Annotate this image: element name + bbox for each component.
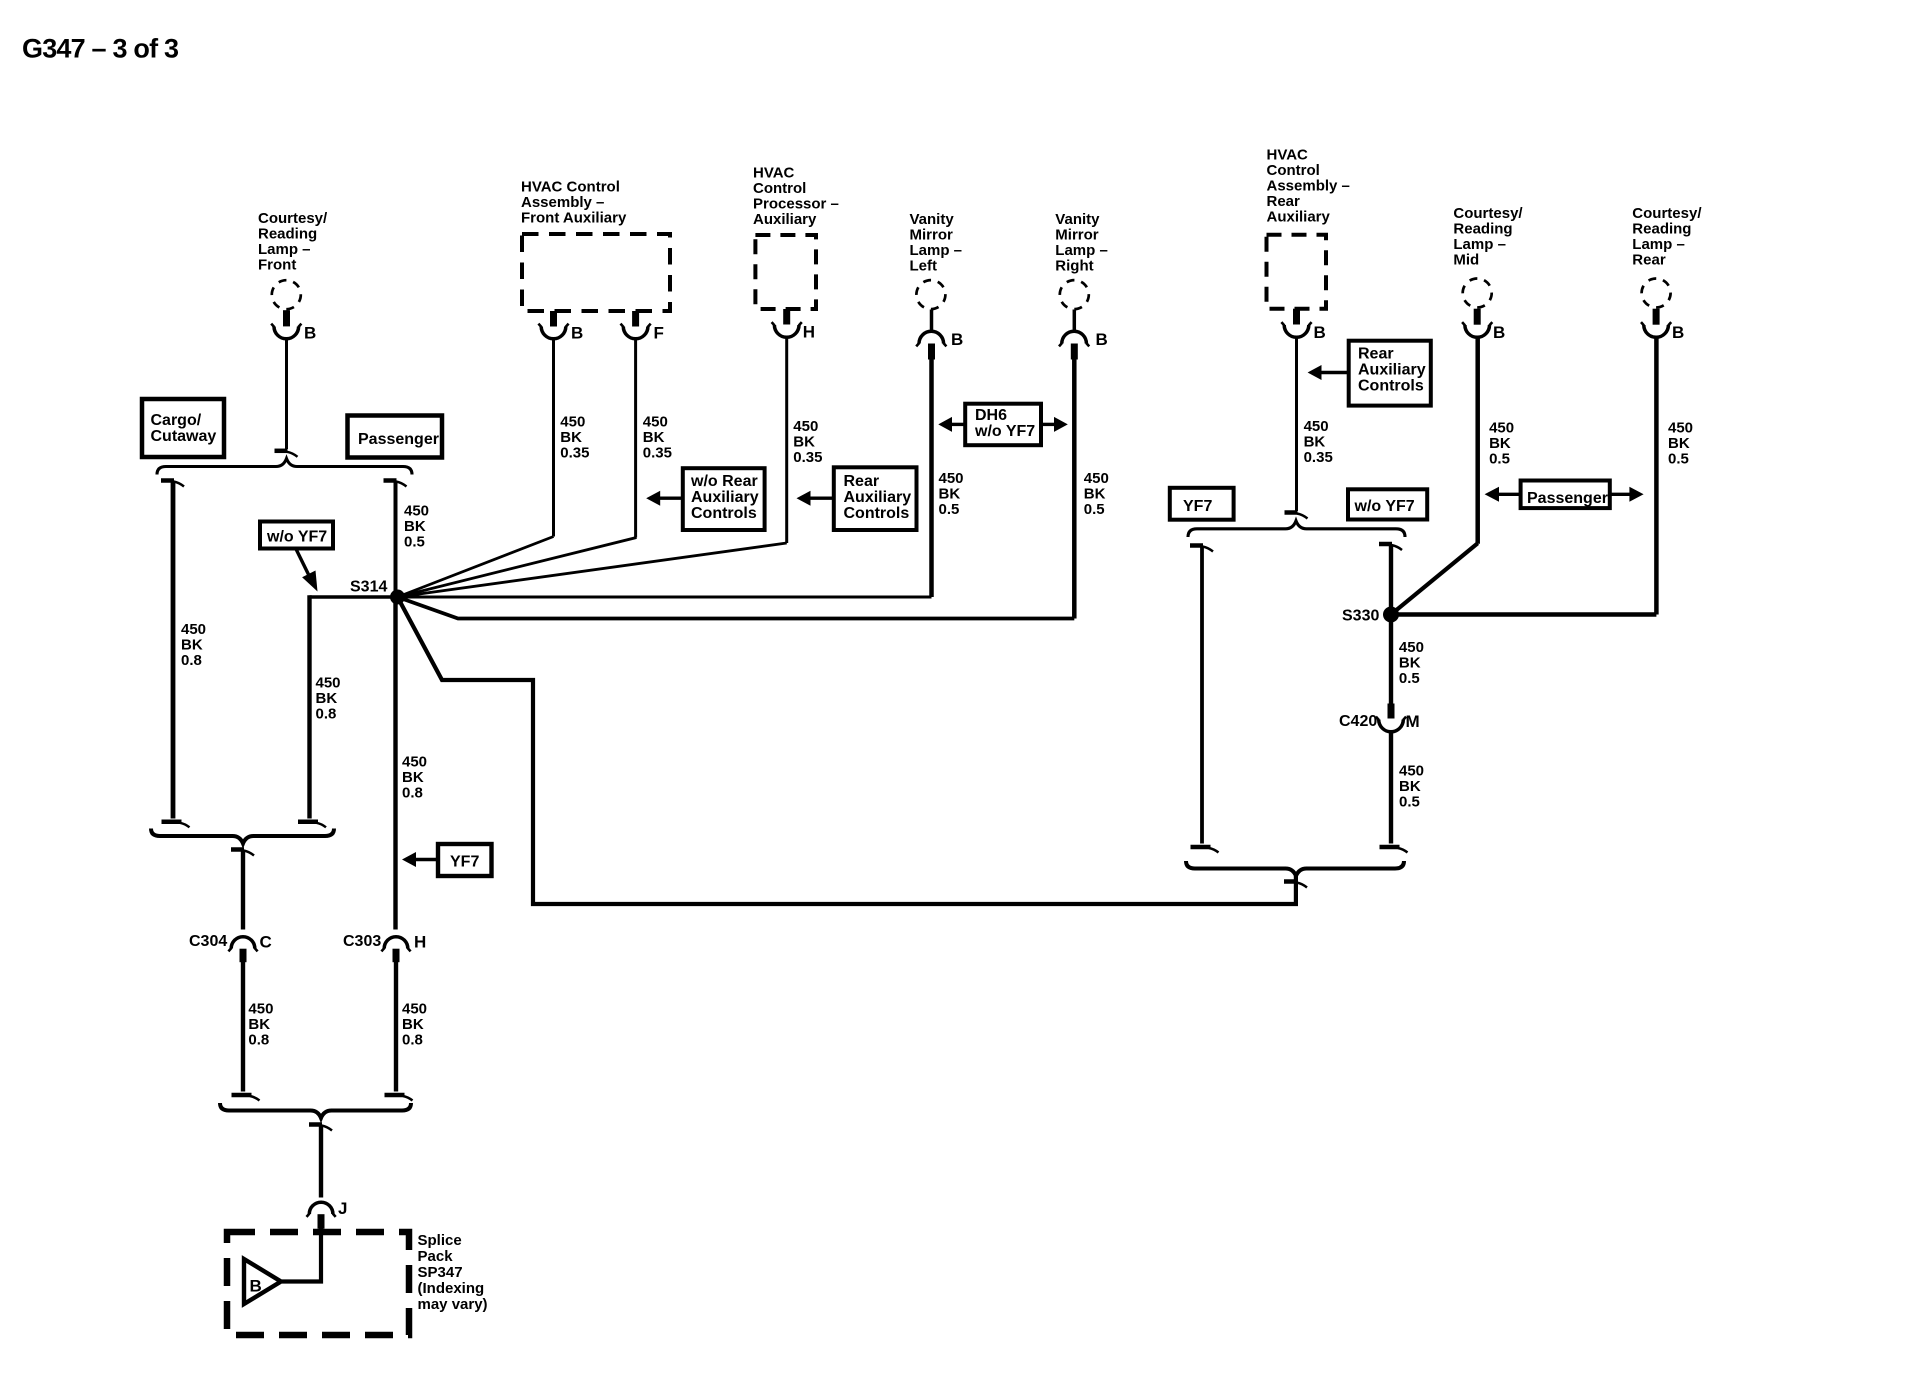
Vanity Mirror Lamp Right dashed circle [1055, 275, 1094, 314]
Courtesy/Reading Lamp Mid dashed circle [1458, 273, 1497, 312]
connector pin B of lamp front [283, 310, 290, 326]
connector cup B of lamp rear [1644, 325, 1669, 337]
wire 450 BK 0.35 from pin B down [552, 339, 555, 537]
connector J pin [318, 1214, 325, 1229]
wire 450 BK 0.8 cargo branch vertical [171, 483, 176, 819]
HVAC Control Assembly Front Auxiliary dashed box [522, 234, 670, 311]
svg-text:BK: BK [1084, 485, 1106, 502]
svg-text:Control: Control [753, 180, 806, 197]
wire 450 BK 0.8 from S314 down to C303 [393, 597, 397, 930]
Passenger box (right) [1521, 481, 1610, 509]
wire label 450 BK 0.5 (below C420) [1399, 762, 1424, 810]
svg-text:H: H [803, 323, 815, 342]
arrow from Rear Auxiliary Controls box to rear aux wire [1321, 371, 1349, 374]
svg-text:Mirror: Mirror [910, 226, 954, 243]
svg-text:Rear: Rear [844, 473, 880, 490]
connector pin B of lamp rear [1653, 309, 1660, 325]
svg-text:C420: C420 [1339, 713, 1377, 730]
wire label 450 BK 0.35 (B wire) [560, 413, 589, 461]
svg-text:B: B [1672, 323, 1684, 342]
connector cup H of HVAC processor [774, 325, 799, 337]
svg-text:450: 450 [1668, 420, 1693, 437]
Rear Auxiliary Controls box (right) [1349, 341, 1431, 406]
connector pin B of lamp mid [1474, 309, 1481, 325]
wire 450 BK 0.5 below C420 [1389, 733, 1393, 844]
svg-text:Passenger: Passenger [358, 431, 439, 448]
harness hook bottom of C304 wire [232, 1093, 252, 1098]
harness hook bottom of YF7 branch wire [1191, 845, 1211, 850]
connector cup F of HVAC front aux [623, 327, 648, 339]
w/o YF7 box (right) [1348, 489, 1427, 519]
HVAC Control Processor Auxiliary dashed box [755, 235, 816, 309]
wire YF7 branch vertical [1200, 548, 1204, 844]
wire from brace down to C304 [241, 852, 245, 930]
connector cup B of lamp front [274, 327, 299, 339]
svg-text:HVAC: HVAC [753, 164, 795, 181]
wire fan from S314 to HVAC processor H wire [398, 543, 787, 597]
wire label 450 BK 0.35 (F wire) [643, 413, 672, 461]
svg-text:0.8: 0.8 [181, 652, 202, 669]
svg-text:Right: Right [1055, 257, 1093, 274]
harness hook at end of rear aux wire [1285, 510, 1298, 515]
stub from vanity left lamp [930, 310, 934, 333]
wire label 450 BK 0.8 (below C303) [402, 1000, 427, 1048]
svg-text:0.35: 0.35 [560, 444, 589, 461]
wire 450 BK 0.35 from pin H down [785, 338, 788, 544]
svg-text:0.35: 0.35 [643, 444, 672, 461]
svg-text:0.5: 0.5 [1668, 451, 1689, 468]
svg-text:0.8: 0.8 [402, 1031, 423, 1048]
svg-text:YF7: YF7 [450, 854, 479, 871]
svg-text:HVAC: HVAC [1267, 147, 1309, 164]
HVAC Control Assembly Rear Auxiliary dashed box [1267, 235, 1327, 309]
HVAC Control Assembly Rear Auxiliary label [1267, 147, 1350, 226]
wire from S314 to vanity left wire [398, 596, 932, 599]
Vanity Mirror Lamp Left label [910, 211, 963, 275]
svg-text:Auxiliary: Auxiliary [691, 489, 759, 506]
harness hook bottom of w/o YF7 branch wire [1380, 845, 1400, 850]
arrow from w/o YF7 box toward S314 [296, 549, 309, 575]
harness hook top of cargo wire [161, 478, 174, 483]
svg-text:B: B [1493, 323, 1505, 342]
connector C420 cup [1379, 720, 1404, 732]
svg-text:Rear: Rear [1358, 346, 1394, 363]
svg-text:0.8: 0.8 [248, 1031, 269, 1048]
lamp E1 label Courtesy/Reading Lamp - Front [258, 210, 328, 274]
svg-text:YF7: YF7 [1183, 498, 1212, 515]
w/o YF7 box (left) [260, 522, 333, 549]
HVAC Control Assembly Front Auxiliary label [521, 178, 627, 226]
lamp E1 dashed circle Courtesy/Reading Lamp Front [267, 275, 306, 314]
svg-text:BK: BK [560, 429, 582, 446]
svg-text:0.35: 0.35 [1304, 449, 1333, 466]
svg-text:B: B [571, 324, 583, 343]
svg-text:B: B [1096, 330, 1108, 349]
svg-text:Mid: Mid [1453, 251, 1479, 268]
svg-text:450: 450 [402, 1000, 427, 1017]
svg-text:Controls: Controls [1358, 378, 1424, 395]
brace joining C304 and C303 wires into splice pack lead [220, 1103, 411, 1118]
svg-text:Front Auxiliary: Front Auxiliary [521, 209, 627, 226]
svg-text:Controls: Controls [691, 505, 757, 522]
wire 450 BK 0.5 lamp rear down to S330 level [1654, 338, 1659, 615]
svg-text:J: J [338, 1199, 347, 1218]
svg-text:(Indexing: (Indexing [418, 1280, 485, 1297]
svg-text:0.5: 0.5 [1399, 670, 1420, 687]
svg-text:Mirror: Mirror [1055, 226, 1099, 243]
svg-text:450: 450 [404, 503, 429, 520]
svg-text:BK: BK [248, 1016, 270, 1033]
wire 450 BK 0.35 from HVAC rear aux B down [1295, 338, 1298, 511]
wire label 450 BK 0.5 (S330 to C420) [1399, 639, 1424, 687]
wire 450 BK 0.5 vanity left down to S314 level [929, 359, 934, 597]
wire 450 BK 0.5 vanity right down [1072, 359, 1077, 619]
svg-text:Assembly –: Assembly – [521, 194, 604, 211]
connector C303 arch [384, 937, 408, 949]
svg-text:HVAC Control: HVAC Control [521, 178, 620, 195]
connector cup B of HVAC front aux [541, 327, 566, 339]
harness hook on rear harness stem [1284, 879, 1297, 884]
Courtesy/Reading Lamp Rear label [1632, 205, 1702, 269]
harness hook on C304 stem [231, 847, 244, 852]
svg-text:BK: BK [1489, 435, 1511, 452]
svg-text:Cargo/: Cargo/ [151, 412, 202, 429]
svg-text:Lamp –: Lamp – [258, 241, 311, 258]
svg-text:DH6: DH6 [975, 407, 1007, 424]
svg-text:Auxiliary: Auxiliary [1358, 362, 1426, 379]
wire fan from S314 to HVAC front aux B wire [398, 537, 554, 598]
svg-text:0.5: 0.5 [1399, 793, 1420, 810]
arrow from w/o Rear Auxiliary Controls box to F wire [660, 497, 683, 500]
svg-text:G347 – 3 of 3: G347 – 3 of 3 [22, 34, 179, 64]
svg-text:Pack: Pack [418, 1248, 454, 1265]
arrow from Rear Auxiliary Controls box to H wire [810, 497, 834, 500]
svg-text:BK: BK [939, 485, 961, 502]
svg-text:Lamp –: Lamp – [1632, 236, 1685, 253]
wire label 450 BK 0.5 (lamp mid) [1489, 420, 1514, 468]
connector arch B of vanity left [919, 331, 944, 343]
connector pin of vanity left [928, 344, 935, 360]
svg-text:H: H [414, 933, 426, 952]
svg-text:Reading: Reading [1453, 220, 1512, 237]
harness hook top of YF7 branch wire [1190, 543, 1203, 548]
svg-text:B: B [304, 324, 316, 343]
svg-text:450: 450 [939, 470, 964, 487]
arrow from DH6 box to vanity right wire [1041, 423, 1055, 426]
wire 450 BK 0.8 below C304 [241, 962, 245, 1092]
svg-text:0.8: 0.8 [316, 705, 337, 722]
brace joining YF7 and w/o YF7 branches into rear harness run [1186, 861, 1404, 876]
harness hook bottom of cargo branch wire [162, 820, 182, 825]
wire from S330 diagonal to lamp mid wire [1391, 543, 1478, 614]
svg-text:450: 450 [248, 1000, 273, 1017]
brace joining cargo and w/o YF7 branches into C304 [151, 829, 334, 844]
DH6 w/o YF7 box [965, 404, 1041, 446]
svg-text:450: 450 [643, 413, 668, 430]
svg-text:450: 450 [793, 418, 818, 435]
harness hook at end of lamp front wire [275, 449, 288, 454]
svg-text:450: 450 [1399, 639, 1424, 656]
Vanity Mirror Lamp Left dashed circle [911, 275, 950, 314]
connector pin H of HVAC processor [783, 309, 790, 325]
svg-text:Auxiliary: Auxiliary [1267, 209, 1331, 226]
wire w/o YF7 branch down to S330 [1389, 546, 1393, 615]
arrow from Passenger box to lamp rear wire [1610, 493, 1630, 496]
splice S314 junction dot [390, 590, 405, 605]
connector C304 pin [240, 949, 247, 963]
svg-text:0.5: 0.5 [1489, 451, 1510, 468]
svg-text:Cutaway: Cutaway [151, 428, 217, 445]
arrow from YF7 box to S314-C303 wire [416, 858, 438, 861]
svg-text:Left: Left [910, 257, 938, 274]
harness hook bottom of w/o YF7 branch wire [298, 820, 318, 825]
svg-text:BK: BK [316, 690, 338, 707]
svg-text:Rear: Rear [1632, 251, 1666, 268]
svg-text:450: 450 [402, 753, 427, 770]
stub from vanity right lamp [1073, 310, 1077, 333]
svg-text:M: M [1406, 712, 1420, 731]
brace distributing rear harness to YF7 / w-o YF7 branches [1188, 521, 1405, 537]
svg-text:Lamp –: Lamp – [1453, 236, 1506, 253]
connector pin B of HVAC rear aux [1293, 309, 1300, 325]
w/o Rear Auxiliary Controls box [683, 468, 765, 530]
Courtesy/Reading Lamp Rear dashed circle [1636, 273, 1675, 312]
svg-text:450: 450 [1304, 418, 1329, 435]
wire 450 BK from lamp front down to brace [285, 339, 288, 449]
svg-text:450: 450 [181, 621, 206, 638]
svg-text:Passenger: Passenger [1527, 490, 1608, 507]
connector arch B of vanity right [1062, 331, 1087, 343]
svg-text:Courtesy/: Courtesy/ [1632, 205, 1702, 222]
svg-text:BK: BK [643, 429, 665, 446]
svg-text:w/o YF7: w/o YF7 [266, 529, 327, 546]
wire 450 BK 0.8 below C303 [394, 962, 398, 1092]
wire from S330 to lamp rear wire [1391, 612, 1656, 616]
svg-text:450: 450 [560, 413, 585, 430]
svg-text:450: 450 [316, 674, 341, 691]
wire fan from S314 to HVAC front aux F wire [398, 538, 637, 598]
harness hook bottom of C303 wire [385, 1093, 405, 1098]
svg-text:B: B [250, 1277, 262, 1296]
wire label 450 BK 0.35 (H wire) [793, 418, 822, 466]
svg-text:Splice: Splice [418, 1232, 462, 1249]
arrow from Passenger box to lamp mid wire [1499, 493, 1521, 496]
YF7 box (right) [1170, 488, 1234, 520]
wire label 450 BK 0.8 (S314 to C303) [402, 753, 427, 801]
svg-text:BK: BK [181, 636, 203, 653]
svg-text:450: 450 [1084, 470, 1109, 487]
wire 450 BK 0.5 lamp mid down [1475, 338, 1480, 544]
svg-text:Rear: Rear [1267, 193, 1301, 210]
svg-text:Courtesy/: Courtesy/ [1453, 205, 1523, 222]
connector C304 arch [231, 937, 255, 949]
svg-text:BK: BK [1304, 434, 1326, 451]
svg-text:450: 450 [1399, 762, 1424, 779]
connector cup B of lamp mid [1465, 325, 1490, 337]
svg-text:BK: BK [402, 1016, 424, 1033]
svg-text:BK: BK [404, 518, 426, 535]
svg-text:B: B [951, 330, 963, 349]
splice pack terminal triangle B [244, 1259, 281, 1304]
svg-text:Reading: Reading [258, 226, 317, 243]
svg-text:Vanity: Vanity [1055, 211, 1100, 228]
harness hook top of w/o YF7 branch wire [1379, 542, 1392, 547]
wire 450 BK 0.5 from S330 down to C420 [1389, 615, 1393, 704]
svg-text:Auxiliary: Auxiliary [844, 489, 912, 506]
brace top-left collecting Cargo/Passenger wires [157, 459, 412, 475]
connector J arch [309, 1202, 333, 1214]
svg-text:Controls: Controls [844, 505, 910, 522]
wire from S314 to vanity right wire [398, 597, 1075, 619]
svg-text:B: B [1314, 323, 1326, 342]
Vanity Mirror Lamp Right label [1055, 211, 1108, 275]
harness hook top of passenger wire [384, 478, 397, 483]
connector C420 pin [1388, 704, 1395, 719]
wire from S314 down-right to rear harness run [398, 597, 1296, 904]
svg-text:Lamp –: Lamp – [1055, 242, 1108, 259]
wire 450 BK 0.8 w/o YF7 branch vertical [307, 595, 311, 818]
svg-text:SP347: SP347 [418, 1264, 463, 1281]
svg-text:S330: S330 [1342, 608, 1379, 625]
svg-text:0.5: 0.5 [939, 501, 960, 518]
svg-text:Auxiliary: Auxiliary [753, 211, 817, 228]
splice S330 junction dot [1383, 607, 1399, 623]
svg-text:BK: BK [793, 434, 815, 451]
wire 450 BK 0.5 passenger branch down to S314 [394, 483, 398, 598]
wire 450 BK 0.35 from pin F down [634, 339, 637, 538]
wire label 450 BK 0.5 (above S314) [404, 503, 429, 551]
connector cup B of HVAC rear aux [1284, 325, 1309, 337]
svg-text:0.35: 0.35 [793, 449, 822, 466]
wire label 450 BK 0.5 (lamp rear) [1668, 420, 1693, 468]
Splice Pack SP347 label [418, 1232, 488, 1313]
wire from brace down to connector J [319, 1127, 323, 1198]
HVAC Control Processor Auxiliary label [753, 164, 839, 228]
connector C303 pin [393, 949, 400, 963]
svg-text:BK: BK [402, 769, 424, 786]
svg-text:Reading: Reading [1632, 220, 1691, 237]
wire from J into splice pack [282, 1228, 321, 1282]
svg-text:may vary): may vary) [418, 1296, 488, 1313]
svg-text:0.5: 0.5 [404, 534, 425, 551]
svg-text:450: 450 [1489, 420, 1514, 437]
Splice Pack SP347 dashed box [227, 1232, 409, 1335]
svg-text:0.5: 0.5 [1084, 501, 1105, 518]
svg-text:Control: Control [1267, 162, 1320, 179]
svg-text:w/o Rear: w/o Rear [690, 473, 758, 490]
connector pin of vanity right [1071, 344, 1078, 360]
svg-text:Front: Front [258, 257, 296, 274]
Courtesy/Reading Lamp Mid label [1453, 205, 1523, 269]
svg-text:Processor –: Processor – [753, 195, 839, 212]
svg-text:C: C [260, 933, 272, 952]
svg-text:F: F [654, 324, 664, 343]
svg-text:S314: S314 [350, 579, 387, 596]
connector pin B of HVAC front aux [550, 311, 557, 327]
svg-text:C304: C304 [189, 933, 227, 950]
Rear Auxiliary Controls box (middle) [834, 467, 917, 530]
wire from S314 left to w/o YF7 branch [310, 595, 398, 598]
wire label 450 BK 0.5 (vanity right) [1084, 470, 1109, 518]
arrow from DH6 box to vanity left wire [952, 423, 966, 426]
svg-text:Assembly –: Assembly – [1267, 178, 1350, 195]
Cargo/Cutaway box [142, 399, 224, 457]
wire label 450 BK 0.5 (vanity left) [939, 470, 964, 518]
harness hook on splice pack stem [309, 1122, 322, 1127]
Passenger box (left) [348, 416, 443, 458]
svg-text:BK: BK [1399, 655, 1421, 672]
wire label 450 BK 0.35 (rear aux B wire) [1304, 418, 1333, 466]
svg-text:C303: C303 [343, 933, 381, 950]
YF7 box (bottom left) [438, 844, 492, 876]
svg-text:BK: BK [1668, 435, 1690, 452]
wire label 450 BK 0.8 (below C304) [248, 1000, 273, 1048]
wire label 450 BK 0.8 (w/o YF7 branch) [316, 674, 341, 722]
svg-text:Lamp –: Lamp – [910, 242, 963, 259]
connector pin F of HVAC front aux [632, 311, 639, 327]
svg-text:Vanity: Vanity [910, 211, 955, 228]
svg-text:Courtesy/: Courtesy/ [258, 210, 328, 227]
wire label 450 BK 0.8 (cargo branch) [181, 621, 206, 669]
svg-text:0.8: 0.8 [402, 784, 423, 801]
svg-text:w/o YF7: w/o YF7 [974, 423, 1035, 440]
svg-text:BK: BK [1399, 778, 1421, 795]
svg-text:w/o YF7: w/o YF7 [1354, 498, 1415, 515]
